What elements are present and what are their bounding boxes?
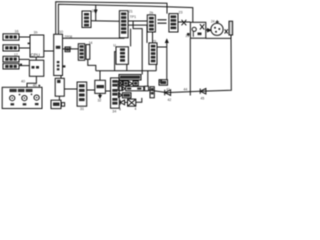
wire bus1 drop to box 33 bbox=[99, 71, 101, 81]
cluster row D tri bbox=[118, 93, 122, 98]
box B output bbox=[51, 100, 61, 108]
svg-text:41: 41 bbox=[166, 87, 170, 91]
wire 26 to 28 bbox=[152, 32, 154, 43]
wire 28 to riser arrow bbox=[157, 46, 167, 48]
wire register to small unit 15 bbox=[63, 48, 79, 50]
text input 14 bbox=[5, 65, 8, 68]
cluster row C right box bbox=[145, 86, 149, 91]
speaker circle 3 bbox=[34, 95, 39, 100]
cluster diode tri bbox=[129, 81, 133, 85]
text box 28 vertical bbox=[151, 45, 156, 48]
cluster banner box bbox=[119, 75, 141, 81]
cluster row C wide box bbox=[126, 86, 144, 90]
wire right riser down bbox=[148, 35, 231, 93]
wire input 14 to box 18 bbox=[19, 65, 29, 67]
cluster row E xbox bbox=[128, 99, 136, 106]
wire 23 to motor arrow bbox=[206, 29, 211, 31]
text box 34 vertical bbox=[112, 80, 117, 83]
box SB small bbox=[159, 80, 168, 86]
motor brush mark top bbox=[216, 20, 219, 23]
svg-text:16: 16 bbox=[92, 9, 96, 13]
cluster row C tri bbox=[123, 87, 126, 91]
input box 11 bbox=[3, 34, 19, 40]
wire branch to box 27 top bbox=[130, 29, 132, 47]
text amp A mark bbox=[57, 80, 60, 83]
text box 27 vertical bbox=[120, 48, 125, 51]
arrowhead riser up bbox=[166, 40, 169, 43]
wire amp A to driver 31 bbox=[64, 88, 77, 90]
svg-text:16: 16 bbox=[15, 30, 19, 34]
speaker circle 1 bbox=[10, 96, 15, 101]
wire register to decoder bus bbox=[63, 37, 125, 39]
cluster xtal symbol bbox=[118, 81, 122, 85]
tick label right of register bbox=[63, 65, 65, 67]
vertical wire TB0 pair top bbox=[79, 20, 82, 22]
box 26 vertical text bbox=[147, 15, 155, 32]
svg-text:44: 44 bbox=[184, 88, 188, 92]
relay inner circle bbox=[192, 27, 196, 31]
text relay 23 marks bbox=[198, 33, 202, 36]
svg-text:31: 31 bbox=[80, 107, 84, 111]
wire stub 27 left to bus1 bbox=[115, 52, 116, 71]
wire 26 elbow into 28 bbox=[128, 25, 147, 43]
speaker circle 1 dot bbox=[12, 97, 13, 98]
svg-text:2b: 2b bbox=[149, 11, 153, 15]
text cluster rowD box bbox=[123, 94, 130, 97]
wire CPU to register box bbox=[44, 50, 54, 52]
box 21 tall vertical text bbox=[119, 11, 128, 38]
text box 31 vertical bbox=[79, 84, 85, 87]
register box U2 tall bbox=[54, 34, 63, 75]
speaker circle 2 bbox=[22, 96, 27, 101]
text box B bbox=[53, 103, 60, 106]
text cluster left box bbox=[151, 88, 154, 90]
text register U2 bbox=[56, 46, 61, 49]
input box 14 bbox=[3, 64, 19, 69]
svg-text:21: 21 bbox=[129, 9, 133, 13]
wire register bottom to amp A bbox=[60, 76, 62, 79]
text small unit 15 bbox=[66, 48, 70, 51]
cluster left box row D bbox=[150, 87, 154, 98]
text input 13 bbox=[5, 58, 8, 61]
narrow box 17 bbox=[86, 45, 90, 60]
driver box 16 vertical text bbox=[78, 44, 84, 61]
cluster row D box bbox=[122, 93, 131, 98]
svg-text:29: 29 bbox=[152, 39, 156, 43]
wire input 11 to CPU bbox=[19, 36, 30, 38]
wire drop from top lower line bbox=[95, 5, 97, 21]
svg-text:40: 40 bbox=[21, 79, 25, 83]
speaker banner strip bbox=[10, 89, 17, 92]
cluster small box b1 bbox=[123, 81, 128, 86]
wire 28 bottom to bus1 bbox=[155, 64, 157, 70]
svg-text:10: 10 bbox=[59, 30, 63, 34]
cluster xtal X bbox=[118, 81, 122, 85]
small unit 15 bbox=[65, 47, 70, 52]
wire amp A to box B bbox=[58, 96, 60, 100]
arrowhead into motor bbox=[208, 29, 211, 32]
text box 26 vertical bbox=[149, 17, 154, 20]
svg-text:45: 45 bbox=[201, 97, 205, 101]
wire box 33 down arrow bbox=[99, 93, 101, 97]
diode D1 on bus2 bbox=[165, 90, 171, 96]
svg-text:17: 17 bbox=[14, 53, 18, 57]
speaker circle 3 dot bbox=[36, 97, 37, 98]
wire top upper line to box 22 bbox=[56, 2, 167, 35]
wire 21 to 26 bbox=[128, 20, 147, 22]
text driver 16 vertical bbox=[80, 45, 84, 48]
wire CPU to box 18 bbox=[35, 57, 37, 60]
wire 23 return vertical bbox=[189, 38, 191, 95]
wire 19 to 21 bbox=[91, 20, 119, 22]
box B side tab bbox=[62, 103, 65, 107]
terminal bar right bbox=[229, 21, 233, 35]
arrowhead drop down bbox=[95, 10, 97, 13]
tick marks under relay bbox=[187, 33, 190, 36]
text box 33 bbox=[97, 85, 105, 88]
speaker unit box 40 bbox=[2, 87, 42, 108]
cluster row E wire right bbox=[136, 98, 142, 102]
tiny mark speaker 1 bbox=[19, 94, 21, 96]
wire 23 bottom return bbox=[206, 37, 231, 39]
box 34 tall bbox=[111, 78, 120, 108]
box 19 vertical text bbox=[82, 11, 91, 28]
bus1 horizontal bbox=[96, 70, 157, 72]
svg-text:34: 34 bbox=[112, 109, 116, 113]
wire input 13 to box 18 bbox=[19, 58, 29, 60]
CPU box U1 bbox=[30, 35, 44, 57]
cluster row E xbox X bbox=[128, 99, 136, 106]
X mark left of SB bbox=[160, 79, 162, 82]
driver box 31 tall bbox=[77, 82, 87, 106]
box 28 vertical text bbox=[149, 43, 157, 65]
tiny cross above speaker box bbox=[38, 85, 40, 87]
relay box 23 bbox=[190, 22, 205, 38]
wire top lower line to block 23 bbox=[58, 4, 192, 34]
wire 21 branch down right bbox=[133, 21, 142, 75]
wire 22 to X switch bbox=[178, 21, 190, 23]
text cluster b2 bbox=[134, 82, 137, 85]
riser wire 22 bottom to SB bbox=[166, 40, 168, 80]
X switch symbol bbox=[182, 20, 187, 26]
svg-text:4: 4 bbox=[119, 108, 121, 112]
text box 18 bbox=[32, 66, 35, 69]
wire 27 bottom to bus1 bbox=[126, 64, 128, 71]
box 22 hatched vertical text bbox=[169, 14, 178, 32]
junction dot inputs 13 14 bbox=[20, 64, 22, 66]
cluster row E wire bbox=[125, 101, 128, 103]
connector marks 26 to 22 bbox=[158, 20, 167, 23]
text input 12 bbox=[5, 46, 8, 49]
svg-text:4: 4 bbox=[135, 107, 137, 111]
svg-text:TP08: TP08 bbox=[65, 35, 73, 39]
amp box A bbox=[55, 78, 64, 96]
svg-text:14: 14 bbox=[89, 41, 93, 45]
wire input 12 to CPU bbox=[19, 47, 30, 49]
box 18 below CPU bbox=[29, 60, 43, 76]
svg-text:23: 23 bbox=[186, 34, 190, 38]
text box 19 vertical bbox=[84, 13, 89, 16]
text cluster rowC wide bbox=[127, 88, 131, 90]
text speaker labels under circles bbox=[11, 103, 15, 105]
tick above input 12 wire bbox=[28, 43, 30, 45]
wire narrow box to bus1 bbox=[88, 59, 96, 71]
wire 31 to 33 bbox=[87, 89, 95, 91]
diode D2 on bus2 bbox=[200, 89, 206, 94]
tiny mark speaker 2 bbox=[31, 93, 33, 95]
text input 11 bbox=[5, 35, 8, 38]
input box 12 bbox=[3, 45, 19, 51]
arrowhead box 33 down bbox=[99, 95, 102, 98]
box 27 vertical text bbox=[116, 47, 128, 65]
cluster small box b2 bbox=[133, 81, 138, 86]
svg-text:32: 32 bbox=[98, 99, 102, 103]
X mark right of motor bbox=[225, 29, 228, 33]
box 33 bbox=[95, 80, 106, 93]
svg-text:40: 40 bbox=[33, 84, 37, 88]
wire box 18 to speaker unit bbox=[27, 76, 36, 87]
svg-text:U: U bbox=[113, 43, 116, 47]
svg-text:24: 24 bbox=[211, 20, 215, 24]
svg-text:1b: 1b bbox=[34, 31, 38, 35]
text box 21 vertical bbox=[121, 13, 126, 16]
cluster row E diode bbox=[120, 100, 124, 105]
text banner cluster bbox=[120, 76, 140, 79]
motor inner marks bbox=[214, 27, 216, 29]
text cluster b1 bbox=[124, 82, 127, 85]
motor circle M bbox=[211, 23, 223, 35]
svg-text:b: b bbox=[70, 45, 72, 49]
input box 13 bbox=[3, 56, 19, 62]
speaker circle 2 dot bbox=[24, 97, 25, 98]
svg-text:TP1: TP1 bbox=[130, 15, 136, 19]
wire bus1 drop to cluster box bbox=[147, 71, 149, 86]
wire 33 to 34 bbox=[105, 90, 110, 92]
text SB bbox=[160, 81, 166, 84]
cluster row C small box bbox=[118, 86, 122, 90]
svg-text:42: 42 bbox=[168, 98, 172, 102]
text box 22 vertical bbox=[171, 15, 177, 18]
svg-text:CPU: CPU bbox=[31, 52, 40, 57]
relay inner X contact bbox=[200, 24, 204, 29]
svg-text:23: 23 bbox=[179, 10, 183, 14]
